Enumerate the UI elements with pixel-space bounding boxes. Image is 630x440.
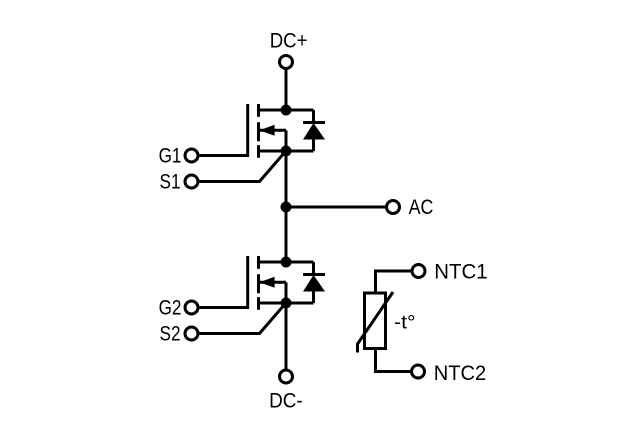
channel dashes xyxy=(257,256,260,269)
transistor Q2 xyxy=(248,256,286,310)
svg-text:DC-: DC- xyxy=(269,390,303,413)
wire Q1 source to AC node xyxy=(285,151,288,207)
thermistor RT1 xyxy=(358,292,394,353)
terminal G1 xyxy=(185,149,198,162)
body arrow line xyxy=(260,129,286,132)
wire Q2 source to DC- xyxy=(285,303,288,370)
terminal AC xyxy=(387,201,400,214)
node Q2 drain junction xyxy=(281,257,292,268)
body arrow line xyxy=(260,281,286,284)
wire NTC1 to thermistor xyxy=(376,271,412,293)
gate plate xyxy=(246,104,249,157)
terminal DC+ xyxy=(280,56,293,69)
body arrow head xyxy=(260,277,275,288)
wire DC+ to Q1 drain xyxy=(285,69,288,111)
source stub xyxy=(259,302,287,305)
terminal S1 xyxy=(185,175,198,188)
svg-text:S1: S1 xyxy=(160,171,181,194)
node Q1 source junction xyxy=(281,146,292,157)
node Q2 source junction xyxy=(281,298,292,309)
wire G1 to gate xyxy=(198,154,248,157)
gate plate xyxy=(246,256,249,309)
wire AC xyxy=(286,206,386,209)
drain stub xyxy=(259,261,287,264)
drain stub xyxy=(259,109,287,112)
diode D1 (body diode of Q1) xyxy=(286,110,325,151)
source stub xyxy=(259,150,287,153)
transistor Q1 xyxy=(248,104,286,158)
svg-text:DC+: DC+ xyxy=(270,30,308,53)
terminal NTC2 xyxy=(412,365,425,378)
wire G2 to gate xyxy=(198,306,248,309)
source vertical xyxy=(285,282,288,303)
svg-text:NTC2: NTC2 xyxy=(434,362,486,385)
svg-text:NTC1: NTC1 xyxy=(434,261,487,284)
source vertical xyxy=(285,130,288,151)
svg-text:S2: S2 xyxy=(160,323,181,346)
svg-text:G1: G1 xyxy=(159,145,182,168)
diode D2 (body diode of Q2) xyxy=(286,262,325,303)
svg-text:-t°: -t° xyxy=(394,313,416,334)
node AC junction xyxy=(281,202,292,213)
wire S2 to source xyxy=(198,304,285,334)
svg-text:AC: AC xyxy=(409,196,434,219)
terminal DC- xyxy=(280,370,293,383)
terminal G2 xyxy=(185,301,198,314)
terminal NTC1 xyxy=(412,265,425,278)
terminal S2 xyxy=(185,327,198,340)
node Q1 drain junction xyxy=(281,105,292,116)
wire S1 to source xyxy=(198,152,285,182)
svg-text:G2: G2 xyxy=(159,297,182,320)
wire thermistor to NTC2 xyxy=(376,349,412,372)
body arrow head xyxy=(260,125,275,136)
wire AC node to Q2 drain xyxy=(285,207,288,262)
channel dashes xyxy=(257,104,260,117)
